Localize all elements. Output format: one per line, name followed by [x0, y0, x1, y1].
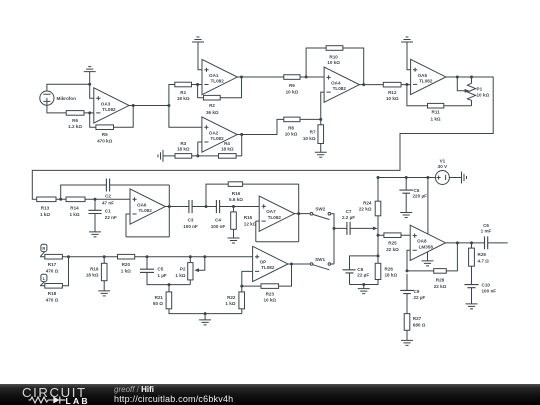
svg-text:R18: R18: [48, 291, 57, 296]
svg-text:2.2 µF: 2.2 µF: [342, 215, 355, 220]
svg-text:R24: R24: [363, 201, 372, 206]
svg-text:OA7: OA7: [266, 209, 276, 214]
svg-text:TL082: TL082: [211, 79, 225, 84]
svg-text:OA3: OA3: [101, 101, 111, 106]
svg-text:C1: C1: [105, 208, 111, 213]
svg-text:100 nF: 100 nF: [183, 224, 198, 229]
svg-text:R27: R27: [413, 316, 422, 321]
svg-text:10 kΩ: 10 kΩ: [263, 298, 276, 303]
svg-text:C10: C10: [482, 282, 491, 287]
svg-text:R19: R19: [90, 266, 99, 271]
svg-text:10 kΩ: 10 kΩ: [286, 89, 299, 94]
svg-text:1 µF: 1 µF: [157, 273, 166, 278]
svg-text:C2: C2: [105, 194, 111, 199]
svg-text:C6: C6: [483, 223, 489, 228]
svg-text:18 kΩ: 18 kΩ: [86, 273, 99, 278]
svg-text:1 kΩ: 1 kΩ: [69, 212, 79, 217]
svg-text:R2: R2: [209, 103, 215, 108]
svg-text:OA5: OA5: [418, 73, 428, 78]
svg-text:1 kΩ: 1 kΩ: [225, 301, 235, 306]
svg-text:R10: R10: [329, 54, 338, 59]
svg-text:R5: R5: [102, 132, 108, 137]
svg-text:18 kΩ: 18 kΩ: [221, 146, 234, 151]
svg-text:C7: C7: [346, 209, 352, 214]
svg-text:R14: R14: [70, 206, 79, 211]
svg-text:47 nF: 47 nF: [102, 200, 114, 205]
svg-text:1 mF: 1 mF: [481, 229, 492, 234]
svg-text:R: R: [42, 246, 45, 251]
svg-text:TL082: TL082: [268, 215, 282, 220]
svg-text:680 Ω: 680 Ω: [413, 322, 426, 327]
svg-text:4.7 Ω: 4.7 Ω: [478, 258, 490, 263]
svg-text:SW2: SW2: [315, 207, 325, 212]
svg-text:R22: R22: [227, 295, 236, 300]
svg-text:1.2 kΩ: 1.2 kΩ: [68, 124, 82, 129]
svg-text:SW1: SW1: [315, 257, 325, 262]
svg-text:18 kΩ: 18 kΩ: [177, 96, 190, 101]
svg-text:470 Ω: 470 Ω: [46, 297, 59, 302]
svg-text:R25: R25: [388, 241, 397, 246]
svg-text:22 kΩ: 22 kΩ: [386, 247, 399, 252]
svg-text:50 Ω: 50 Ω: [153, 301, 163, 306]
svg-text:10 kΩ: 10 kΩ: [477, 93, 490, 98]
svg-text:100 nF: 100 nF: [211, 224, 226, 229]
svg-text:TL082: TL082: [419, 79, 433, 84]
svg-text:OP: OP: [260, 260, 267, 265]
svg-text:OA8: OA8: [417, 239, 427, 244]
svg-text:R13: R13: [41, 206, 50, 211]
svg-text:TL082: TL082: [210, 136, 224, 141]
svg-text:R21: R21: [155, 295, 164, 300]
svg-text:470 kΩ: 470 kΩ: [97, 138, 112, 143]
svg-text:1 kΩ: 1 kΩ: [121, 268, 131, 273]
svg-text:P2: P2: [180, 267, 186, 272]
svg-text:C9: C9: [414, 289, 420, 294]
svg-text:18 kΩ: 18 kΩ: [177, 146, 190, 151]
svg-text:22 nF: 22 nF: [105, 215, 117, 220]
svg-text:22 kΩ: 22 kΩ: [359, 207, 372, 212]
svg-text:C4: C4: [215, 217, 221, 222]
svg-text:R8: R8: [288, 125, 294, 130]
svg-text:100 nF: 100 nF: [482, 289, 497, 294]
svg-text:18 kΩ: 18 kΩ: [385, 273, 398, 278]
svg-text:12 kΩ: 12 kΩ: [244, 222, 257, 227]
svg-text:1 kΩ: 1 kΩ: [40, 212, 50, 217]
svg-text:10 kΩ: 10 kΩ: [303, 136, 316, 141]
svg-text:22 µF: 22 µF: [357, 273, 369, 278]
svg-text:1 kΩ: 1 kΩ: [431, 116, 441, 121]
svg-text:R7: R7: [310, 130, 316, 135]
svg-text:R26: R26: [385, 266, 394, 271]
svg-text:OA2: OA2: [209, 130, 219, 135]
svg-text:R1: R1: [180, 90, 186, 95]
svg-text:1 kΩ: 1 kΩ: [175, 273, 185, 278]
svg-text:R11: R11: [432, 110, 441, 115]
svg-text:C3: C3: [188, 217, 194, 222]
svg-text:22 µF: 22 µF: [414, 295, 426, 300]
svg-text:10 kΩ: 10 kΩ: [285, 132, 298, 137]
svg-text:R9: R9: [289, 83, 295, 88]
svg-text:TL082: TL082: [139, 208, 153, 213]
svg-text:22 kΩ: 22 kΩ: [434, 284, 447, 289]
svg-text:R29: R29: [478, 252, 487, 257]
svg-text:LM358: LM358: [419, 244, 434, 249]
svg-text:R12: R12: [388, 90, 397, 95]
svg-text:C8: C8: [357, 267, 363, 272]
svg-text:OA4: OA4: [331, 81, 341, 86]
svg-text:470 Ω: 470 Ω: [46, 268, 59, 273]
svg-text:P1: P1: [477, 87, 483, 92]
svg-text:V1: V1: [440, 158, 446, 163]
svg-text:R17: R17: [48, 262, 57, 267]
svg-text:TL082: TL082: [333, 86, 347, 91]
svg-text:OA1: OA1: [209, 73, 219, 78]
svg-text:TL082: TL082: [261, 265, 275, 270]
svg-text:36 kΩ: 36 kΩ: [206, 110, 219, 115]
svg-text:R15: R15: [244, 215, 253, 220]
svg-text:OA6: OA6: [137, 202, 147, 207]
svg-text:10 kΩ: 10 kΩ: [327, 60, 340, 65]
svg-text:C5: C5: [157, 267, 163, 272]
svg-text:C6: C6: [414, 188, 420, 193]
svg-text:R20: R20: [122, 262, 131, 267]
svg-text:R28: R28: [436, 278, 445, 283]
svg-text:R16: R16: [232, 191, 241, 196]
svg-text:30 V: 30 V: [438, 164, 448, 169]
svg-text:10 kΩ: 10 kΩ: [386, 96, 399, 101]
svg-text:TL082: TL082: [102, 107, 116, 112]
svg-text:R6: R6: [72, 118, 78, 123]
svg-text:5.6 kΩ: 5.6 kΩ: [229, 197, 243, 202]
svg-text:R23: R23: [266, 292, 275, 297]
svg-text:220 µF: 220 µF: [413, 194, 428, 199]
svg-text:Mikrofon: Mikrofon: [57, 96, 77, 101]
